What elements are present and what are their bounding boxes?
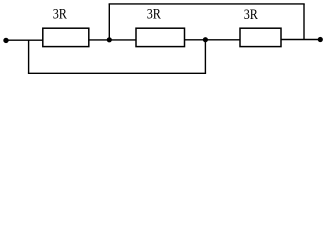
- node A (left terminal dot): [3, 38, 8, 43]
- wire: R2 to R3: [185, 39, 241, 41]
- resistor R3: [240, 28, 281, 46]
- svg-text:3R: 3R: [53, 7, 67, 23]
- wire: left terminal to R1: [6, 39, 43, 41]
- wire: top rail: [109, 3, 305, 5]
- wire: R3 to right terminal: [281, 39, 320, 41]
- wire: right branch of bottom rail up to node C: [204, 40, 206, 74]
- wire: R1 to R2: [89, 39, 136, 41]
- wire: bottom rail: [28, 72, 206, 74]
- node D (right terminal dot): [318, 37, 323, 42]
- svg-text:3R: 3R: [244, 7, 258, 23]
- resistor R2: [136, 28, 185, 46]
- node B (dot between R1 and R2): [107, 37, 112, 42]
- svg-text:3R: 3R: [147, 7, 161, 23]
- resistor R1: [43, 28, 89, 46]
- wire: top rail right leg down to main wire: [303, 4, 305, 40]
- wire: left branch down (x=28.6, wire to bottom rail): [28, 40, 30, 73]
- node C (dot between R2 and R3): [203, 37, 208, 42]
- wire: node B up to top rail: [108, 4, 110, 40]
